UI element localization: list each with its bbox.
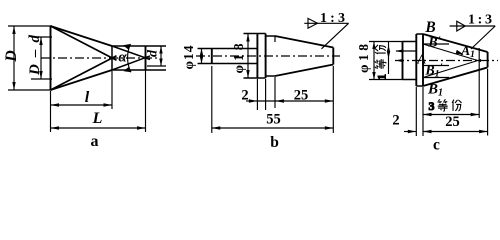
extension line junction down — [111, 71, 113, 109]
construction slant arrow upper — [456, 50, 464, 54]
dimension D-d arrow bottom — [39, 71, 42, 79]
svg-text:d: d — [146, 49, 161, 57]
construction slant B1-prime to A1 — [423, 60, 481, 78]
cone big end junction tick — [274, 36, 276, 42]
phi14 cylinder bottom surface — [198, 63, 258, 65]
cone top surface — [275, 36, 333, 48]
neck bottom surface — [266, 75, 275, 77]
flange left face figure c — [415, 34, 417, 86]
svg-text:D–d: D–d — [27, 35, 43, 77]
dimension 25 arrow right figure c — [479, 130, 488, 133]
taper leader — [322, 23, 349, 49]
svg-text:2: 2 — [392, 113, 399, 129]
construction horizontal B1-prime — [423, 77, 449, 79]
svg-text:l: l — [85, 89, 90, 106]
dimension 3dengfen arrow right — [471, 113, 480, 116]
dimension 3dengfen line — [423, 114, 479, 116]
construction line to apex top — [112, 46, 150, 60]
phi18 extension bottom figure c — [369, 79, 403, 81]
dimension D-d line — [40, 37, 42, 79]
dimension phi14 arrow top — [200, 49, 203, 56]
extension line apex down — [145, 59, 147, 132]
dimension phi14 line — [201, 49, 203, 64]
dimension d extension bottom — [147, 65, 166, 67]
centerline axis figure a — [41, 57, 160, 59]
cone bottom surface — [51, 70, 113, 90]
extension flange left down figure c — [415, 87, 417, 136]
dimension 2 line with arrow — [246, 100, 257, 102]
svg-text:D: D — [3, 50, 20, 63]
extension 3dengfen right — [478, 48, 480, 118]
extension line big end down — [50, 91, 52, 132]
taper symbol triangle — [308, 18, 318, 28]
cone bottom surface figure c — [423, 67, 488, 86]
flange right face figure c — [422, 34, 424, 86]
svg-text:2: 2 — [241, 88, 248, 104]
svg-text:c: c — [433, 137, 440, 151]
flange bottom surface — [244, 77, 266, 79]
dimension 3dengfen arrow left — [423, 113, 432, 116]
dimension D arrow top — [12, 26, 15, 34]
stub top surface — [403, 41, 417, 43]
cylinder bottom surface d — [112, 69, 166, 71]
dimension D extension bottom — [8, 89, 52, 91]
dimension phi18 arrow top — [246, 34, 249, 42]
taper leader figure c — [471, 26, 495, 49]
extension line left end down — [211, 66, 213, 133]
taper symbol line figure c — [450, 25, 496, 27]
dimension 55 line — [212, 127, 333, 129]
right end face — [145, 46, 147, 70]
left end face — [211, 49, 213, 64]
cone small end face — [332, 48, 334, 65]
dimension 25 arrow left figure c — [423, 130, 432, 133]
dimension D arrow bottom — [12, 82, 15, 90]
svg-text:1: 1 — [375, 74, 389, 80]
svg-text:b: b — [270, 134, 279, 150]
dimension l line — [51, 104, 113, 106]
dimension 55 arrow right — [325, 126, 334, 129]
dimension 25 line figure c — [423, 131, 488, 133]
inner sharp cone bottom line — [51, 56, 117, 90]
dimension D line — [13, 26, 15, 90]
svg-text:B: B — [424, 19, 435, 36]
flange top surface — [244, 33, 266, 35]
dimension d line — [160, 46, 162, 66]
phi14 cylinder top surface — [198, 48, 258, 50]
svg-text:55: 55 — [266, 112, 281, 128]
stub bottom surface — [403, 79, 417, 81]
cone top surface figure c — [423, 34, 488, 52]
label 1dengfen rotated — [375, 45, 389, 80]
svg-text:φ14: φ14 — [181, 45, 196, 69]
dimension 55 arrow left — [212, 126, 221, 129]
dimension 1dengfen arrow up — [387, 45, 390, 52]
dimension 1dengfen arrow down — [387, 52, 390, 59]
dimension 2 arrow figure c — [408, 130, 417, 133]
svg-text:L: L — [92, 110, 103, 127]
angle alpha arc — [128, 44, 131, 72]
construction arrow left upper — [396, 49, 404, 52]
construction line B-prime left — [396, 50, 416, 52]
construction arrow left lower — [396, 59, 404, 62]
flange left face — [256, 34, 258, 79]
extension small end down figure c — [487, 69, 489, 136]
big end face D — [50, 26, 52, 90]
dimension d arrow top — [159, 46, 162, 54]
stub left face — [402, 42, 404, 80]
dimension L arrow right — [137, 126, 146, 129]
flange top surface figure c — [416, 33, 423, 35]
alpha arc arrow top — [123, 44, 131, 50]
dimension D extension top — [8, 25, 52, 27]
dimension 25 arrow right — [325, 99, 334, 102]
construction horizontal below axis — [423, 65, 449, 67]
taper symbol triangle figure c — [457, 21, 465, 31]
dimension L arrow left — [51, 126, 60, 129]
extension line cone junction down — [274, 77, 276, 108]
dimension 2 line figure c — [404, 131, 416, 133]
dimension 25 line — [257, 100, 333, 102]
dimension phi18 arrow top figure c — [372, 42, 375, 50]
dimension 1dengfen line — [388, 42, 390, 74]
neck top surface — [266, 35, 275, 37]
dimension D-d extension top — [31, 36, 52, 38]
inner sharp cone top line — [51, 26, 117, 60]
dimension l arrow left — [51, 103, 60, 106]
centerline axis figure c — [395, 60, 498, 62]
extension flange right down figure c — [422, 87, 424, 136]
svg-text:φ18: φ18 — [231, 43, 246, 73]
svg-text:25: 25 — [294, 88, 309, 104]
flange right face — [265, 34, 267, 79]
svg-text:1:3: 1:3 — [320, 11, 345, 26]
svg-text:α: α — [118, 50, 127, 66]
extension line flange right down — [265, 79, 267, 110]
dimension 2 arrow — [249, 99, 258, 102]
cone top surface — [51, 26, 113, 46]
dimension d arrow bottom — [159, 59, 162, 67]
flange bottom surface figure c — [416, 85, 423, 87]
label 3dengfen — [429, 99, 462, 113]
svg-text:3: 3 — [429, 99, 435, 113]
extension line flange left down — [256, 79, 258, 110]
cone-cylinder junction edge — [111, 46, 113, 70]
cone bottom surface — [275, 65, 333, 77]
construction horizontal B-prime — [423, 43, 449, 45]
centerline axis figure b — [196, 55, 340, 57]
dimension phi14 arrow bottom — [200, 57, 203, 64]
cylinder top surface d — [112, 45, 166, 47]
dimension phi18 arrow bottom figure c — [372, 72, 375, 80]
svg-text:a: a — [91, 133, 99, 150]
svg-text:1:3: 1:3 — [468, 13, 492, 28]
dimension D-d arrow top — [39, 37, 42, 45]
phi18 extension top figure c — [369, 41, 403, 43]
alpha arc arrow bottom — [124, 67, 132, 73]
dimension phi18 arrow bottom — [246, 70, 249, 78]
dimension 25 arrow left — [276, 99, 285, 102]
dimension D-d extension bottom — [31, 78, 52, 80]
dimension phi18 line figure c — [373, 42, 375, 80]
dimension L line — [51, 127, 146, 129]
taper symbol line — [304, 22, 348, 24]
construction slant B-prime to A1 — [423, 44, 481, 62]
construction line to apex bottom — [112, 56, 150, 70]
cone small end face figure c — [487, 52, 489, 67]
dimension l arrow right — [104, 103, 113, 106]
svg-text:φ18: φ18 — [356, 44, 371, 73]
extension line small end down — [332, 66, 334, 133]
svg-text:25: 25 — [445, 114, 460, 130]
dimension phi18 line — [247, 34, 249, 79]
